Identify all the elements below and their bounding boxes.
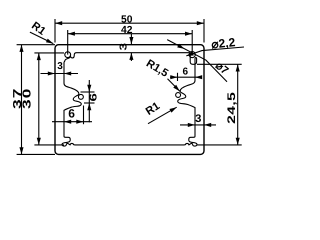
dimension 6 (mid-left channel, horizontal) [52, 106, 92, 125]
inner cavity contour, right half (top-right screw channel, mid-right screw channel, bottom-right screw channel) [130, 53, 197, 146]
svg-text:6: 6 [88, 92, 99, 101]
svg-text:3: 3 [57, 61, 63, 72]
dimension 24,5 (channel spacing, right) [197, 64, 242, 145]
dimension 3 (top wall thickness) [119, 34, 134, 61]
radius label R1 with leader (top-left outer corner) [29, 20, 54, 46]
dimension 50 (overall width, top) [55, 15, 204, 43]
dimension 3 (right wall thickness, bottom) [180, 113, 216, 127]
dimension 6 (mid-right channel, horizontal) [170, 67, 202, 82]
svg-text:6: 6 [68, 107, 75, 121]
svg-text:6: 6 [183, 67, 189, 78]
dimension 3 (left wall thickness) [41, 61, 79, 76]
dimension 42 (screw channel spacing, top) [68, 25, 193, 55]
dimension 6 (mid-left channel, vertical) [81, 80, 100, 122]
svg-text:50: 50 [121, 15, 133, 26]
radius label R1 with leader (mid-right channel lower fillet) [144, 100, 178, 124]
pilot hole circle, mid-right screw channel [176, 93, 181, 98]
diameter label dia 7 with leader line through top-right channel [167, 40, 230, 82]
dimension 37 (overall height, left) [12, 45, 55, 155]
inner cavity contour, left half (top-left screw channel, mid-left screw channel, bottom-left screw channel) [62, 53, 129, 146]
part outline: outer contour of extruded enclosure profile [55, 45, 204, 155]
svg-text:3: 3 [195, 113, 201, 125]
pilot hole circle, top-left screw channel [65, 52, 71, 58]
svg-text:30: 30 [21, 87, 33, 109]
diameter label dia 2,2 with leader (pilot hole top-right) [186, 35, 244, 58]
dimension 30 (inner cavity height, left) [21, 53, 64, 145]
radius label R1,5 with leader (mid-right channel upper fillet) [144, 57, 181, 92]
pilot hole circle, top-right screw channel (dia 2,2) [189, 52, 195, 58]
pilot hole circle, mid-left screw channel [78, 94, 83, 99]
svg-text:24,5: 24,5 [226, 92, 238, 124]
svg-text:3: 3 [119, 42, 130, 50]
svg-text:⌀2,2: ⌀2,2 [211, 35, 237, 51]
